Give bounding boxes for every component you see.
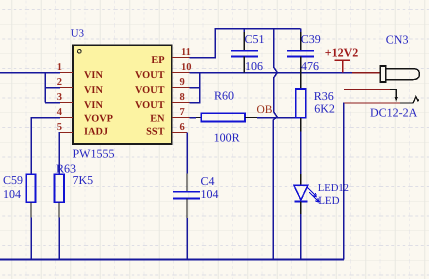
capacitor C39 plates (287, 51, 314, 57)
wire: pin11 EP to ground rail riser (190, 29, 301, 58)
svg-text:5: 5 (57, 122, 62, 133)
svg-text:VIN: VIN (84, 100, 103, 111)
svg-text:+12V2: +12V2 (325, 45, 359, 59)
svg-text:106: 106 (245, 59, 263, 73)
svg-text:VIN: VIN (84, 85, 103, 96)
capacitor C51 plates (231, 51, 258, 57)
IC U3 body (73, 45, 172, 144)
wire: R36 to LED (300, 132, 302, 174)
pin 9 stub (172, 87, 190, 89)
svg-text:8: 8 (180, 92, 185, 103)
svg-text:C4: C4 (201, 174, 215, 188)
pin 5 stub (60, 132, 73, 134)
svg-text:1: 1 (57, 62, 62, 73)
wire: R60 to R36/LED node (257, 117, 301, 119)
connector CN3 barrel (386, 69, 420, 80)
svg-text:476: 476 (301, 59, 319, 73)
wire: LED to ground rail (300, 214, 302, 260)
svg-text:VIN: VIN (84, 70, 103, 81)
connector CN3 flange (380, 66, 386, 82)
connector CN3 middle pin (switch) (344, 89, 390, 91)
capacitor C59 pin bottom (30, 202, 32, 217)
wire: pin5 IADJ to R63 (59, 133, 60, 175)
svg-text:9: 9 (180, 77, 185, 88)
svg-text:6K2: 6K2 (314, 102, 335, 116)
pin 11 stub (172, 57, 190, 59)
LED LED12 triangle (294, 185, 308, 200)
connector CN3 switch arrowhead (394, 97, 398, 102)
wire: pin3 link (45, 102, 60, 104)
wire: CN3 bottom pin to ground rail (343, 103, 345, 260)
svg-text:C59: C59 (3, 173, 23, 187)
pin 3 stub (60, 102, 73, 104)
wire: pin1 link (45, 72, 60, 74)
svg-text:10: 10 (181, 62, 192, 73)
wire: pin6 SST to C4 (186, 133, 188, 174)
pin 4 stub (60, 117, 73, 119)
wire: R63 to ground rail (58, 217, 60, 259)
wire: VIN feed from left edge (0, 73, 45, 103)
capacitor C4 pin top (186, 174, 188, 192)
resistor R60 pin left (196, 117, 201, 119)
wire: C59 to ground rail (30, 217, 32, 259)
svg-text:2: 2 (57, 77, 62, 88)
svg-text:C51: C51 (245, 32, 265, 46)
capacitor C4 pin bottom (186, 198, 188, 218)
svg-text:SST: SST (146, 127, 164, 138)
capacitor C51 riser bottom (243, 56, 245, 72)
svg-text:7K5: 7K5 (73, 173, 94, 187)
LED LED12 pin top (300, 174, 302, 185)
svg-text:LED: LED (318, 195, 339, 207)
svg-text:7: 7 (180, 107, 185, 118)
wire: pin4 VOVP to C59 (31, 118, 60, 175)
svg-text:104: 104 (201, 187, 219, 201)
svg-text:OB: OB (257, 104, 273, 116)
svg-text:6: 6 (180, 122, 185, 133)
svg-text:PW1555: PW1555 (73, 147, 115, 161)
svg-text:R60: R60 (214, 89, 234, 103)
resistor R60 body (201, 113, 245, 121)
svg-text:EP: EP (151, 55, 164, 66)
svg-text:DC12-2A: DC12-2A (370, 106, 418, 120)
svg-text:IADJ: IADJ (84, 127, 108, 138)
svg-text:EN: EN (150, 114, 165, 125)
capacitor C4 plates (173, 192, 200, 199)
wire: pin9 link (190, 73, 200, 88)
svg-text:VOUT: VOUT (135, 70, 165, 81)
LED LED12 light arrow 1 (307, 187, 317, 197)
svg-text:VOUT: VOUT (135, 85, 165, 96)
pin 7 stub (172, 117, 190, 119)
pin 1 stub (60, 72, 73, 74)
wire: pin10 VOUT +12V rail (190, 72, 353, 74)
svg-text:CN3: CN3 (386, 33, 409, 47)
svg-text:104: 104 (3, 187, 21, 201)
svg-text:3: 3 (57, 92, 62, 103)
resistor R36 pin bottom (300, 118, 302, 132)
IC U3 pin-1 indicator circle (78, 50, 82, 54)
capacitor C39 riser top (300, 29, 302, 33)
wire: pin8 link (190, 88, 200, 103)
wire: pin7 EN to R60 (190, 117, 197, 119)
power symbol +12V2 bar (334, 59, 350, 61)
svg-text:C39: C39 (301, 32, 321, 46)
resistor R63 pin bottom (58, 202, 60, 217)
pin 10 stub (172, 72, 190, 74)
wire: EP/ground column with hops (273, 29, 277, 260)
pin 2 stub (60, 87, 73, 89)
wire: ground bottom rail (0, 259, 344, 261)
svg-text:VOVP: VOVP (84, 114, 113, 125)
svg-text:VOUT: VOUT (135, 100, 165, 111)
wire: +12V red segment to CN3 (352, 72, 380, 74)
LED LED12 light arrow 2 (309, 192, 319, 202)
svg-text:100R: 100R (214, 131, 240, 145)
capacitor C51 riser top (243, 29, 245, 33)
LED LED12 pin bottom (300, 202, 302, 214)
svg-text:4: 4 (57, 107, 63, 118)
svg-text:11: 11 (181, 47, 191, 58)
connector CN3 bottom pin with contact caret (344, 102, 400, 104)
power symbol +12V2 stem (342, 60, 344, 72)
LED LED12 cathode bar (294, 201, 307, 203)
capacitor C39 pin bottom to R36 (crosses rail) (300, 56, 302, 89)
pin 8 stub (172, 102, 190, 104)
svg-text:U3: U3 (71, 28, 84, 40)
pin 6 stub (172, 132, 187, 134)
capacitor C59 body (26, 174, 35, 202)
resistor R63 body (54, 174, 64, 202)
resistor R60 pin right (245, 117, 257, 119)
wire: C4 to ground rail (186, 218, 188, 259)
resistor R36 body (296, 89, 306, 118)
wire: pin2 link (45, 87, 60, 89)
